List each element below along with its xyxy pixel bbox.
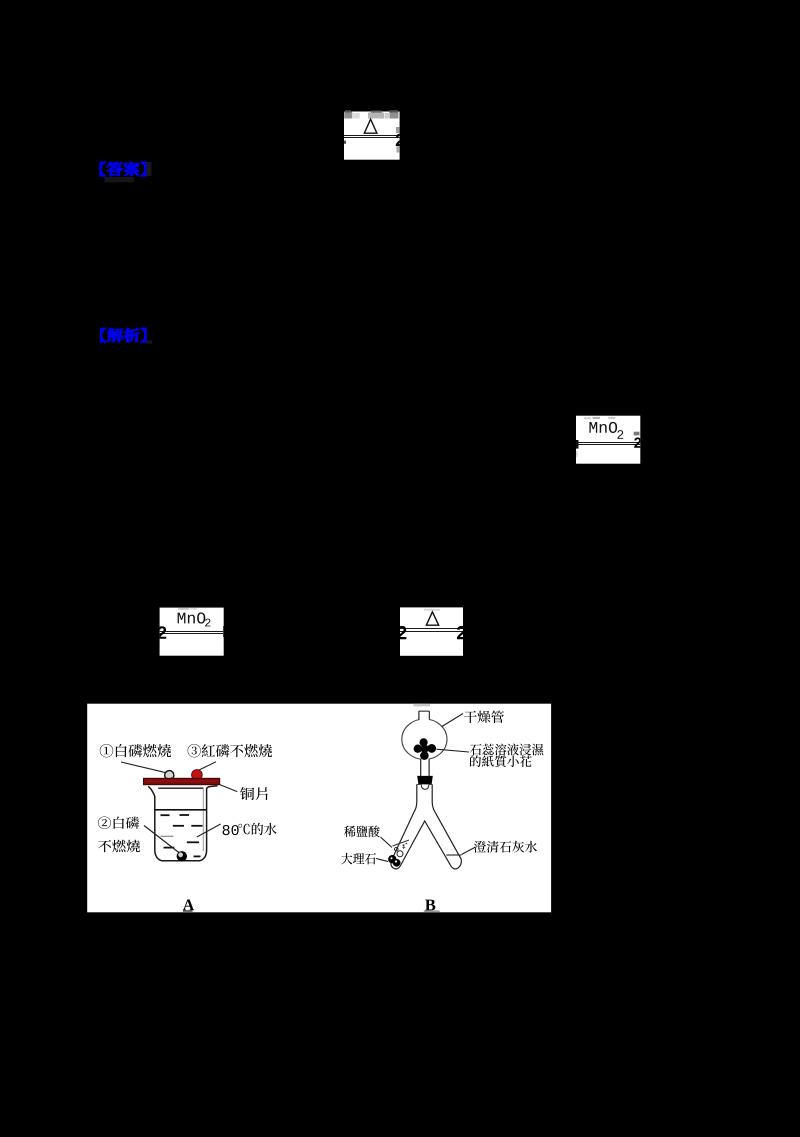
white phosphorus ball (on copper plate) — [165, 771, 174, 780]
copper plate — [144, 778, 220, 784]
leader line to 稀盐酸 — [381, 837, 393, 848]
equation image box 2 (MnO2 catalyst arrow) — [576, 416, 640, 464]
sunk white phosphorus ball — [177, 851, 187, 861]
Y-tube mouth rim — [417, 783, 422, 785]
box2 left edge fragment — [576, 440, 579, 449]
box3 MnO2 text — [178, 612, 206, 623]
box3 double line — [160, 632, 224, 634]
equation image box 3 (MnO2 catalyst arrow) — [160, 608, 224, 656]
drying tube neck redraw — [419, 711, 429, 720]
leader line to white phosphorus ball on plate — [121, 762, 167, 773]
label 不燃烧 — [98, 840, 140, 853]
experiment figure panel — [87, 704, 551, 913]
marble black blob at leg bottom — [388, 855, 396, 863]
litmus paper flower — [414, 738, 437, 760]
tube between bulb and stopper — [420, 759, 422, 776]
label ③红磷不燃烧 — [188, 744, 272, 757]
leader line to red phosphorus ball — [199, 762, 217, 771]
box4 right char fragment — [457, 626, 466, 639]
box1 delta triangle — [364, 119, 377, 133]
water dashes — [161, 815, 203, 856]
box3 right edge sliver — [222, 626, 225, 637]
beaker right wall inner line — [202, 789, 204, 851]
label 80℃的水 — [223, 825, 239, 835]
leader line to 石蕊 label — [437, 749, 470, 752]
leader line to 铜片 label — [220, 785, 238, 792]
leader line to 大理石 — [376, 859, 388, 862]
drying tube neck — [419, 711, 429, 719]
dilute HCl liquid surface in left leg — [393, 840, 410, 846]
rubber stopper — [417, 776, 433, 785]
leader line to 80°C water label — [197, 824, 221, 837]
box1 left char fragment — [344, 141, 346, 144]
label 的纸质小花 — [470, 755, 532, 767]
box4 top edge remnant — [424, 609, 440, 611]
Y-tube left leg rounded end — [391, 859, 400, 869]
label ②白磷 — [98, 816, 139, 829]
red phosphorus ball — [192, 770, 203, 781]
drying tube top cap remnant — [414, 704, 431, 707]
Y-tube mouth arc under stopper — [421, 785, 429, 790]
label 澄清石灰水 — [474, 841, 537, 853]
box1 top edge text remnants — [344, 110, 398, 118]
box1 double line — [344, 136, 400, 138]
water surface line — [155, 809, 207, 811]
marble bits in left leg — [397, 851, 403, 857]
drying tube bulb — [402, 719, 447, 759]
box2 MnO2 text — [589, 422, 617, 433]
label 铜片 — [240, 787, 268, 800]
label 大理石 — [341, 853, 376, 865]
limewater surface in right leg — [446, 854, 461, 856]
leader line to 澄清石灰水 — [462, 847, 476, 855]
box2 top edge remnants — [584, 417, 615, 419]
box2 right char fragment 2 — [634, 432, 640, 436]
figure letter B — [425, 900, 435, 911]
label 稀盐酸 — [344, 826, 380, 838]
faint row under label 1 — [104, 177, 133, 182]
beaker mouth line — [158, 787, 203, 789]
box4 double line — [400, 629, 463, 632]
leader line to 干燥管 — [442, 714, 463, 727]
equation image box 1 (heat arrow) — [344, 112, 400, 160]
blue label 【答案】 — [100, 162, 146, 176]
label ①白磷燃烧 — [100, 744, 171, 757]
blue label 【解析】 — [101, 328, 147, 342]
Y-tube inner V — [400, 821, 451, 866]
leader line to sunk white phosphorus ball — [144, 826, 180, 854]
box4 delta triangle — [426, 612, 438, 625]
Y-tube stem walls — [392, 784, 417, 859]
label ℃的水 — [238, 823, 276, 835]
bulb neck white patches — [420, 711, 430, 721]
label 干燥管 — [464, 710, 504, 722]
figure letter A — [183, 900, 194, 911]
box3 top edge remnants — [178, 608, 189, 610]
Y-tube right leg rounded end — [451, 859, 461, 869]
label 石蕊溶液浸湿 — [470, 744, 543, 756]
beaker outline — [148, 786, 217, 861]
equation image box 4 (heat arrow) — [400, 607, 463, 655]
box2 double line — [576, 443, 640, 445]
